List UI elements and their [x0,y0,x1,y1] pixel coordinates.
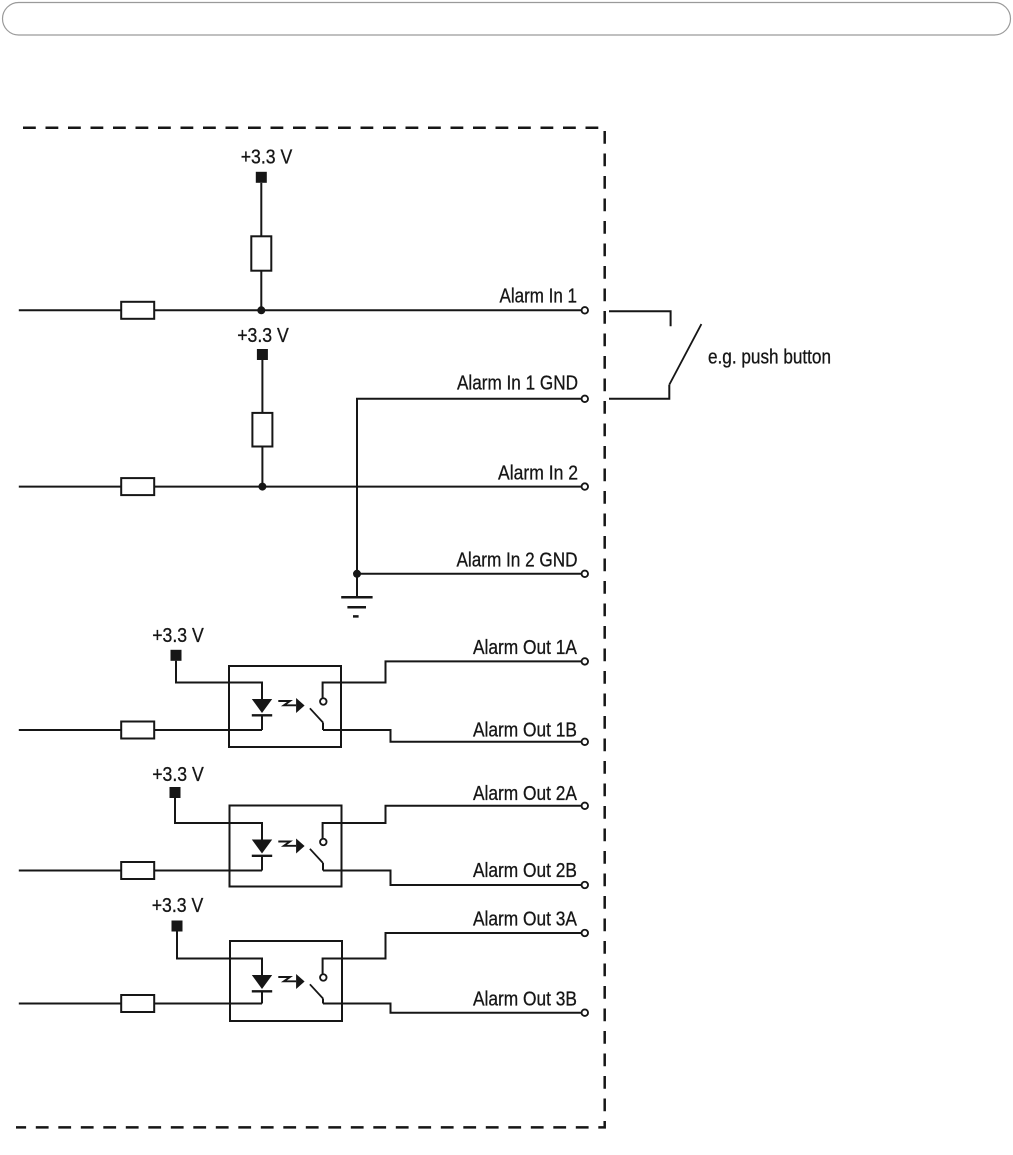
wire push button top [609,311,671,326]
terminal Alarm In 1 GND [582,396,589,403]
junction node (gnd) [353,570,361,578]
wire input (out3) [19,1003,262,1005]
wire Alarm In 1 [19,309,582,311]
wire emitter to 1B (out1) [323,730,581,742]
wire Alarm In 2 [19,486,582,488]
wire input (out2) [19,870,262,872]
series resistor (out2) [121,862,154,879]
svg-text:+3.3 V: +3.3 V [152,764,204,786]
junction node (in2) [258,483,266,491]
svg-text:Alarm Out 2B: Alarm Out 2B [473,860,577,882]
wire emitter to 2B (out2) [323,871,581,886]
photo switch blade (out3) [310,984,323,998]
light arrow (out2) [278,842,296,846]
svg-text:+3.3 V: +3.3 V [241,147,293,169]
svg-text:Alarm In 2 GND: Alarm In 2 GND [457,550,578,572]
optocoupler box U3 [230,941,342,1021]
+3.3 V supply square (out1) [171,650,182,661]
wire emitter to 3B (out3) [323,1004,581,1013]
photo switch contact circle (out1) [320,698,327,705]
svg-text:Alarm In 1: Alarm In 1 [500,286,578,308]
optocoupler box U1 [229,666,341,747]
ground symbol [341,597,372,616]
terminal Alarm In 1 [582,307,589,314]
photo switch contact circle (out3) [320,974,327,981]
terminal Alarm In 2 [582,483,589,490]
svg-text:+3.3 V: +3.3 V [152,895,204,917]
wire collector to 2A (out2) [323,806,582,839]
wire collector to 3A (out3) [323,933,582,974]
junction node (in1) [257,306,265,314]
wire supply to LED anode (out3) [177,932,262,976]
pull-up resistor (in2) [252,413,272,447]
wire resistor to node (in2) [261,447,263,487]
terminal Alarm Out 1A [582,658,589,665]
series resistor (in2) [121,478,154,495]
series resistor (in1) [121,302,154,319]
terminal Alarm Out 2A [582,803,589,810]
LED D2 [252,840,272,854]
wire supply to resistor (in2) [261,360,263,413]
wire supply to LED anode (out1) [176,661,262,699]
svg-text:e.g. push button: e.g. push button [708,347,831,369]
wire supply to resistor (in1) [260,183,262,237]
svg-text:Alarm Out 1B: Alarm Out 1B [473,720,577,742]
wire push button bottom [609,385,669,399]
svg-text:+3.3 V: +3.3 V [152,625,204,647]
wire Alarm In 1 GND [357,399,581,598]
light arrow (out1) [278,701,296,705]
wire resistor to node (in1) [260,271,262,311]
photo switch contact circle (out2) [320,839,327,846]
terminal Alarm Out 1B [582,739,589,746]
wire supply to LED anode (out2) [175,798,262,840]
light arrow (out3) [278,977,296,981]
photo switch blade (out2) [310,849,323,863]
terminal Alarm Out 3A [582,930,589,937]
photo switch blade (out1) [310,708,323,722]
+3.3 V supply square (in2) [257,349,268,360]
LED D1 [252,699,272,713]
svg-text:Alarm In 1 GND: Alarm In 1 GND [457,373,578,395]
+3.3 V supply square (out2) [170,787,181,798]
terminal Alarm Out 2B [582,882,589,889]
wire collector to 1A (out1) [323,661,582,698]
svg-text:Alarm Out 3B: Alarm Out 3B [473,989,577,1011]
svg-text:Alarm In 2: Alarm In 2 [498,463,578,485]
wire Alarm In 2 GND [357,573,581,575]
terminal Alarm In 2 GND [582,571,589,578]
LED D3 [252,975,272,989]
switch blade [669,324,701,385]
svg-text:Alarm Out 1A: Alarm Out 1A [473,637,578,659]
+3.3 V supply square (in1) [256,172,267,183]
pull-up resistor (in1) [251,236,271,270]
svg-text:Alarm Out 3A: Alarm Out 3A [473,909,578,931]
series resistor (out1) [121,722,154,739]
svg-text:Alarm Out 2A: Alarm Out 2A [473,783,578,805]
series resistor (out3) [121,995,154,1012]
+3.3 V supply square (out3) [172,921,183,932]
svg-text:+3.3 V: +3.3 V [237,325,289,347]
wire input (out1) [19,729,262,731]
dashed camera-unit border [16,128,605,1128]
optocoupler box U2 [230,806,342,887]
top rounded frame [3,3,1011,36]
terminal Alarm Out 3B [582,1009,589,1016]
